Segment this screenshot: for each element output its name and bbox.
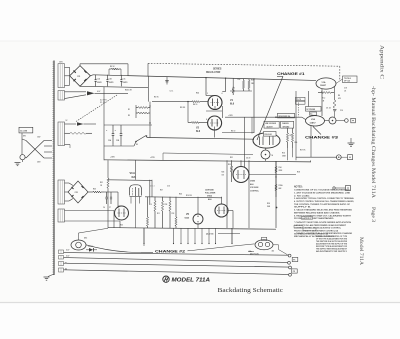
svg-text:Page 3: Page 3 <box>370 207 375 223</box>
svg-text:CHANGE #1: CHANGE #1 <box>277 71 306 76</box>
svg-text:NOTES:: NOTES: <box>294 187 303 189</box>
svg-text:S2: S2 <box>136 144 138 146</box>
svg-text:CHANGE #2: CHANGE #2 <box>155 248 186 253</box>
svg-text:5V: 5V <box>66 120 68 122</box>
svg-text:R27: R27 <box>160 190 163 192</box>
svg-text:R20: R20 <box>93 189 96 191</box>
svg-text:CHANGE #3: CHANGE #3 <box>305 135 339 140</box>
svg-text:R16: R16 <box>295 142 298 144</box>
svg-text:3: 3 <box>207 93 208 95</box>
svg-text:.05: .05 <box>344 90 346 92</box>
svg-text:CONDITIONS OF DC VOLTAGE MEASU: CONDITIONS OF DC VOLTAGE MEASUREMENT: <box>294 189 350 192</box>
svg-text:12AX7: 12AX7 <box>320 84 327 87</box>
svg-text:6.3 V TO: 6.3 V TO <box>100 100 107 102</box>
svg-text:THE CONTROL TURNED TO APPROXIM: THE CONTROL TURNED TO APPROXIMATE RATIO … <box>294 203 351 206</box>
svg-text:R35: R35 <box>238 79 241 81</box>
svg-text:C10: C10 <box>340 110 343 112</box>
svg-text:FOLLOWER: FOLLOWER <box>205 192 216 194</box>
svg-text:C3 .1: C3 .1 <box>170 91 174 93</box>
svg-text:R6 10: R6 10 <box>231 131 235 133</box>
svg-text:R33: R33 <box>120 225 123 227</box>
svg-text:R18: R18 <box>297 172 300 174</box>
svg-text:ADJUSTMENT FOR SUPPLY: ADJUSTMENT FOR SUPPLY <box>316 250 348 253</box>
svg-text:5. VALUE STANDARD SELECTED AND: 5. VALUE STANDARD SELECTED AND FEED RESE… <box>294 209 353 212</box>
svg-text:C9 .02: C9 .02 <box>326 108 331 110</box>
svg-text:R36: R36 <box>251 80 254 82</box>
svg-text:C12 .1: C12 .1 <box>150 186 155 188</box>
svg-text:C6: C6 <box>103 207 105 209</box>
svg-text:6L6: 6L6 <box>196 130 201 133</box>
svg-text:R17 1K: R17 1K <box>300 150 306 152</box>
svg-text:REGULATOR: REGULATOR <box>206 71 221 74</box>
svg-text:R9: R9 <box>290 135 292 137</box>
svg-text:* CAPACITY MUST RELOCATE SERIE: * CAPACITY MUST RELOCATE SERIES APPLICAT… <box>294 221 352 224</box>
svg-text:X2: X2 <box>65 269 67 271</box>
svg-text:R2: R2 <box>128 115 130 117</box>
svg-text:V4 B: V4 B <box>250 180 255 183</box>
svg-text:DS2: DS2 <box>84 238 87 240</box>
svg-text:DC PROBE: DC PROBE <box>307 109 315 111</box>
svg-text:R5 220: R5 220 <box>180 107 185 109</box>
svg-text:2. NO LOAD.: 2. NO LOAD. <box>294 194 311 197</box>
svg-text:V1, V2: V1, V2 <box>100 102 105 104</box>
svg-text:4. OUTPUT CONTROL THROUGH FULL: 4. OUTPUT CONTROL THROUGH FULL TRANSFORM… <box>294 200 354 203</box>
svg-text:R1: R1 <box>128 109 130 111</box>
svg-text:-hp- Manual Backdating Changes: -hp- Manual Backdating Changes Model 711… <box>370 86 375 199</box>
svg-text:Model 711A: Model 711A <box>358 237 363 266</box>
svg-text:F1: F1 <box>293 260 295 262</box>
svg-text:GROUND: GROUND <box>283 126 291 128</box>
svg-text:R31: R31 <box>230 157 233 159</box>
svg-text:3. ADJUSTED TYPICAL CONTROL CO: 3. ADJUSTED TYPICAL CONTROL CONNECTED TO… <box>294 197 355 200</box>
svg-text:C6 20: C6 20 <box>246 158 250 160</box>
svg-text:OA3: OA3 <box>185 217 190 220</box>
svg-text:R23: R23 <box>222 172 225 174</box>
svg-text:R11: R11 <box>157 213 160 215</box>
svg-text:R12: R12 <box>165 204 168 206</box>
svg-text:R30: R30 <box>267 203 270 205</box>
svg-text:SUPPLY B.: SUPPLY B. <box>294 207 312 209</box>
svg-text:8: 8 <box>206 119 207 121</box>
svg-text:X1: X1 <box>65 263 67 265</box>
svg-text:CR1: CR1 <box>77 76 80 78</box>
svg-text:C18: C18 <box>344 88 347 90</box>
svg-text:115V: 115V <box>37 137 40 139</box>
svg-text:VOLTAGE: VOLTAGE <box>250 186 259 189</box>
svg-text:Appendix C: Appendix C <box>379 45 384 79</box>
svg-text:V4 A: V4 A <box>207 195 212 198</box>
svg-text:R16: R16 <box>282 153 285 155</box>
svg-text:12AX7: 12AX7 <box>310 121 317 124</box>
svg-text:MODEL 711A: MODEL 711A <box>172 277 211 283</box>
svg-text:C7: C7 <box>109 207 111 209</box>
svg-text:V2A: V2A <box>311 118 315 121</box>
svg-text:R19 150: R19 150 <box>186 195 192 197</box>
svg-text:CR2: CR2 <box>75 192 78 194</box>
svg-text:R1-2: R1-2 <box>322 98 325 100</box>
svg-text:R25: R25 <box>179 194 182 196</box>
svg-text:FIX RELATED POINT MAINTAINED.: FIX RELATED POINT MAINTAINED. <box>294 217 335 220</box>
svg-text:CATHODE: CATHODE <box>205 189 215 192</box>
svg-text:Backdating Schematic: Backdating Schematic <box>218 287 284 294</box>
svg-text:F2: F2 <box>293 271 295 273</box>
svg-text:R21: R21 <box>100 182 103 184</box>
svg-text:V3 A: V3 A <box>130 172 136 175</box>
svg-text:R8: R8 <box>338 95 340 97</box>
svg-text:150: 150 <box>222 175 225 177</box>
svg-text:AC LINE: AC LINE <box>20 130 28 133</box>
svg-text:CONTROL: CONTROL <box>250 190 260 192</box>
svg-text:* EARLY: CONTACT ALL-O RESI: * EARLY: CONTACT ALL-O RESISTANCES CHANG… <box>296 232 353 235</box>
svg-text:R13: R13 <box>172 213 175 215</box>
svg-text:SERIES: SERIES <box>213 69 222 71</box>
svg-text:BETWEEN RELATED BASE AND CHASS: BETWEEN RELATED BASE AND CHASSIS. <box>294 211 341 214</box>
svg-text:1. ANY VOLTAGE IN CAPACITORS M: 1. ANY VOLTAGE IN CAPACITORS MEASURED, L… <box>294 191 351 194</box>
svg-text:R22: R22 <box>228 164 231 166</box>
svg-text:6L6: 6L6 <box>230 103 235 106</box>
svg-text:TO C8: TO C8 <box>296 99 301 101</box>
svg-text:R10: R10 <box>149 204 152 206</box>
svg-text:V1A: V1A <box>322 81 326 84</box>
svg-text:230V: 230V <box>37 162 41 164</box>
